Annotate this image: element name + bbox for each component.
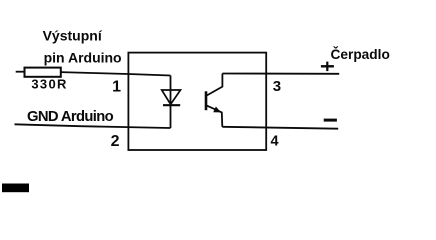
svg-text:2: 2 [111, 133, 120, 150]
wire pin 3 to pump + [222, 73, 339, 75]
svg-text:4: 4 [271, 134, 279, 150]
svg-text:1: 1 [112, 79, 121, 96]
op-amp style body: optocoupler U1 box [128, 53, 266, 150]
LED D1 vertical leads [170, 76, 172, 129]
LED D1 cathode bar [163, 104, 180, 106]
plus terminal symbol [321, 65, 334, 67]
wire from resistor R1 to optocoupler pin 1 and LED anode [61, 72, 171, 75]
phototransistor Q1 emitter arrowhead [213, 107, 221, 113]
phototransistor Q1 collector diagonal [207, 74, 223, 96]
resistor R1 330R [25, 68, 61, 77]
wire GND Arduino to optocoupler pin 2 and LED cathode [15, 124, 171, 128]
LED D1 triangle (anode) [162, 90, 181, 104]
svg-text:330R: 330R [31, 77, 67, 92]
svg-text:Čerpadlo: Čerpadlo [331, 47, 390, 62]
svg-text:GND Arduino: GND Arduino [27, 109, 114, 125]
minus terminal symbol [324, 119, 337, 122]
phototransistor Q1 base bar [205, 91, 208, 110]
wire from Arduino output pin to resistor R1 [16, 71, 25, 73]
watermark bar bottom-left [2, 184, 29, 193]
svg-text:3: 3 [273, 78, 281, 95]
svg-text:Výstupní: Výstupní [43, 28, 103, 44]
wire pin 4 to pump - [222, 127, 338, 129]
svg-text:pin Arduino: pin Arduino [44, 50, 122, 66]
phototransistor Q1 emitter diagonal [207, 105, 223, 126]
